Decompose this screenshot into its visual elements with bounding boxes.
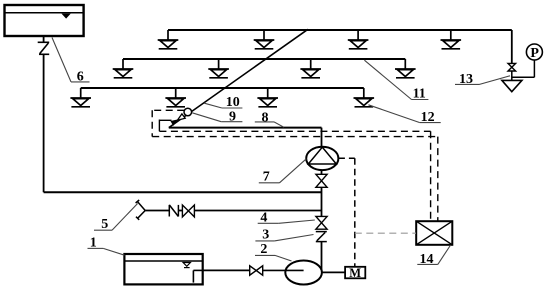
sensor circle 10 — [184, 108, 192, 116]
sprinkler S2b — [208, 59, 229, 78]
wire: dashed outer control line (sensor 10 to box 14) — [152, 110, 438, 221]
flow arrow (filled) — [170, 119, 178, 126]
svg-text:12: 12 — [421, 110, 435, 125]
label 5 — [94, 204, 138, 231]
wire: pump 7 to valve — [321, 170, 323, 174]
svg-text:3: 3 — [262, 228, 269, 243]
arrow line into solenoid — [159, 119, 171, 121]
valve below pump 7 — [316, 174, 327, 187]
pressure gauge P — [512, 44, 543, 77]
wire: dashed inner control line (solenoid to box 14) — [159, 131, 430, 221]
wire: valve to nozzle — [511, 71, 513, 80]
svg-text:7: 7 — [263, 170, 270, 185]
wire: pump 2 to motor — [322, 271, 345, 273]
solenoid valve 9 (upper open triangle) — [177, 114, 185, 120]
wire: down through junctions — [321, 187, 323, 216]
nozzle (open triangle) — [502, 80, 522, 91]
svg-text:4: 4 — [260, 211, 267, 226]
label 11 — [364, 60, 428, 99]
wire: valve into pump 2 center — [263, 269, 304, 271]
wire: suction line B (y=210.5) — [145, 210, 169, 212]
gate valve on suction line — [182, 205, 194, 217]
sprinkler S3c — [257, 88, 278, 107]
wire: dashed gray branch to box 14 — [355, 232, 416, 234]
valve 13 (bowtie) — [508, 63, 516, 71]
sprinkler S1b — [254, 30, 275, 49]
tank 6 (elevated water tank, top-left) — [5, 5, 84, 36]
flexible joint (zigzag) on tank pipe — [38, 42, 50, 54]
wire: supply main A (y=192) to pump column — [44, 191, 322, 193]
pump 7 (circle with triangle) — [306, 147, 338, 170]
sprinkler S3d — [354, 88, 375, 107]
svg-text:8: 8 — [262, 110, 269, 125]
wire: down to pump 2 outlet — [321, 242, 323, 273]
svg-text:M: M — [349, 266, 361, 280]
tank 1 (sump, bottom) — [124, 254, 202, 284]
label 8 — [255, 122, 284, 127]
sprinkler S2d — [395, 59, 416, 78]
lateral L2 (y=59) — [123, 58, 405, 60]
wire: dashed from pump 7 to motor M — [338, 158, 354, 267]
label 9 — [192, 113, 242, 122]
check valve (N) — [169, 205, 178, 217]
svg-text:P: P — [530, 46, 539, 61]
control box 14 — [416, 221, 452, 245]
suction bell-mouth 5 — [136, 200, 146, 220]
sprinkler S1d — [441, 30, 462, 49]
pump column: wire from line 8 down to pump 7 — [321, 128, 323, 147]
svg-text:5: 5 — [101, 217, 108, 232]
svg-text:14: 14 — [420, 252, 434, 267]
sprinkler S3b — [165, 88, 186, 107]
sprinkler S3a — [70, 88, 91, 107]
label 13 — [455, 76, 510, 85]
label 10 — [204, 103, 242, 108]
svg-text:2: 2 — [260, 242, 267, 257]
svg-text:6: 6 — [77, 70, 84, 85]
riser diagonal 10 (from solenoid up to L1) — [169, 29, 308, 127]
label 1 — [88, 248, 125, 255]
label 4 — [258, 220, 315, 223]
suction pipe inside tank 1 — [193, 270, 202, 282]
svg-text:9: 9 — [229, 110, 236, 125]
lateral L1 (top, y=30) — [168, 29, 512, 31]
wire: vertical pipe down to supply main — [43, 54, 45, 192]
wire: main line 8 (y=127.6) — [169, 127, 322, 129]
label 7 — [259, 159, 307, 183]
valve on pump 2 suction — [250, 266, 263, 275]
sprinkler S2c — [300, 59, 321, 78]
svg-text:1: 1 — [90, 236, 97, 251]
wire: tank 1 to valve — [203, 269, 250, 271]
svg-text:10: 10 — [226, 95, 240, 110]
valve 4 — [316, 216, 327, 229]
wire: L1 right end drop to hydrant 13 — [511, 30, 513, 64]
wire: vertical pipe from tank 6 — [43, 36, 45, 42]
svg-text:13: 13 — [459, 72, 473, 87]
lateral L3 (y=88) — [81, 87, 364, 89]
label 12 — [368, 105, 440, 123]
motor M — [345, 267, 365, 279]
label 6 — [52, 38, 90, 82]
sprinkler S1a — [158, 30, 179, 49]
label 14 — [417, 245, 450, 264]
flexible joint 3 (zigzag) — [316, 232, 327, 242]
sprinkler S2a — [113, 59, 134, 78]
label 2 — [255, 255, 292, 261]
label 3 — [255, 235, 313, 241]
sprinkler S1c — [348, 30, 369, 49]
svg-text:11: 11 — [413, 87, 426, 102]
pump 2 (ellipse) — [285, 261, 322, 285]
